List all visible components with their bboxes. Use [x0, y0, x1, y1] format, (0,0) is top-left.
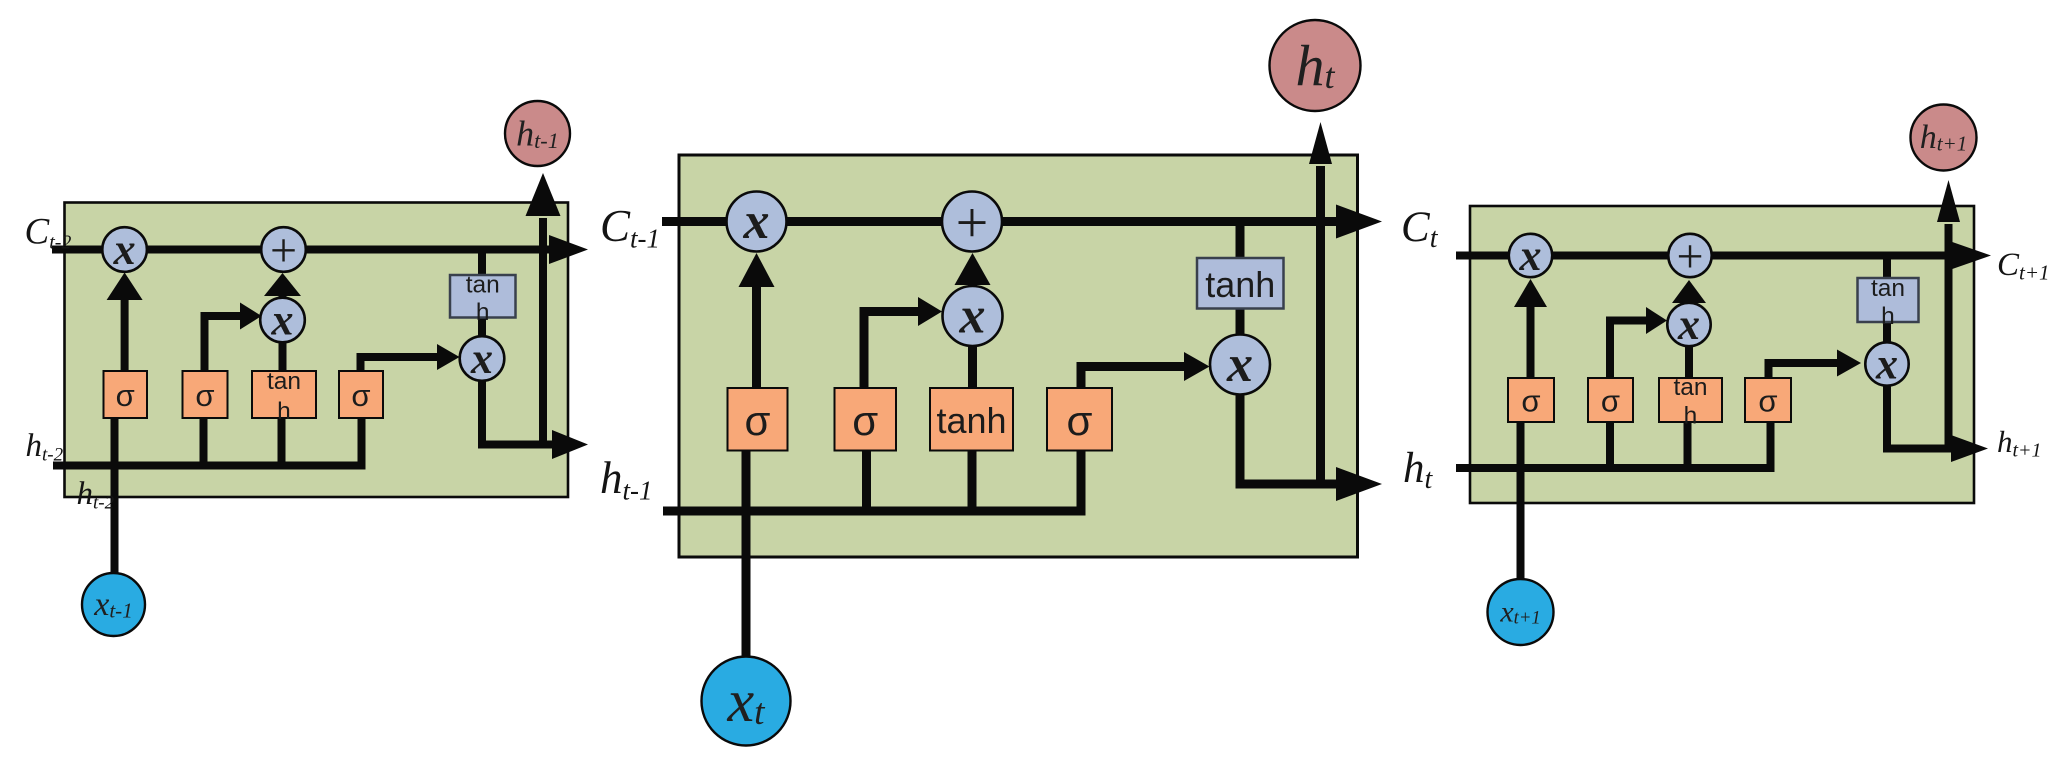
svg-text:h: h: [277, 398, 291, 425]
op multiply (input) cell R: [1667, 300, 1710, 349]
wire h-output line cell R: [1887, 384, 1953, 449]
svg-text:σ: σ: [195, 378, 214, 413]
op multiply (output) cell R: [1865, 340, 1908, 389]
input circle x cell L: [82, 573, 145, 636]
LSTM cell L background: [65, 203, 569, 498]
arrowhead into plus cell M: [955, 253, 991, 285]
svg-text:σ: σ: [116, 378, 135, 413]
wire C-line cell L: [52, 246, 551, 254]
op multiply (output) cell L: [460, 334, 505, 383]
wire x-input drop cell R: [1517, 421, 1525, 581]
arrowhead h-up cell M: [1309, 122, 1332, 164]
op multiply (input) cell M: [943, 286, 1003, 346]
gate sigma2 cell M: [835, 388, 897, 451]
svg-text:σ: σ: [852, 397, 878, 444]
output circle h cell M: [1270, 20, 1361, 111]
arrowhead into plus cell L: [264, 273, 301, 296]
svg-text:σ: σ: [1521, 384, 1540, 419]
svg-text:x: x: [470, 334, 493, 383]
svg-text:+: +: [956, 190, 989, 255]
arrowhead into mult1 cell R: [1514, 279, 1547, 307]
svg-text:σ: σ: [1758, 384, 1777, 419]
LSTM cell M background: [679, 155, 1358, 557]
tanh output box cell M: [1197, 258, 1284, 309]
op multiply (forget) cell L: [102, 225, 147, 274]
arrowhead into mult2 cell L: [240, 303, 262, 330]
svg-text:x: x: [1519, 231, 1542, 280]
tanh output box cell R: [1858, 275, 1919, 330]
gate sigma2 cell R: [1588, 378, 1633, 422]
wire h-output line cell M: [1240, 393, 1338, 485]
wire drop tanh-gate-to-h cell M: [968, 450, 977, 512]
arrowhead into mult2 cell M: [918, 297, 942, 326]
wire drop sigma2-to-h cell M: [862, 450, 871, 512]
wire tanh-blue-to-mult3 riser cell L: [478, 316, 486, 339]
op multiply (forget) cell R: [1509, 231, 1552, 280]
output circle h cell R: [1911, 105, 1977, 171]
arrowhead into mult2 cell R: [1646, 307, 1667, 334]
op multiply (forget) cell M: [727, 192, 787, 252]
input circle x cell R: [1488, 579, 1554, 645]
svg-text:Ct+1: Ct+1: [1997, 247, 2050, 285]
gate sigma1 cell L: [104, 371, 148, 418]
wire sigma1-to-mult riser cell R: [1527, 305, 1535, 379]
gate tanh cell R: [1659, 374, 1722, 429]
wire tanh-gate-to-mult2 riser cell R: [1685, 344, 1693, 379]
op add cell M: [942, 190, 1002, 255]
svg-text:ht: ht: [1403, 445, 1434, 495]
op add cell L: [261, 224, 306, 277]
svg-text:tan: tan: [1871, 275, 1905, 302]
gate sigma1 cell M: [728, 388, 788, 451]
svg-text:ht+1: ht+1: [1997, 424, 2042, 461]
arrowhead C-out cell L: [549, 235, 588, 264]
svg-text:ht-1: ht-1: [600, 453, 653, 505]
svg-text:Ct-1: Ct-1: [600, 201, 660, 253]
svg-text:x: x: [113, 225, 136, 274]
gate sigma3 cell L: [339, 371, 383, 418]
svg-text:σ: σ: [1067, 397, 1093, 444]
svg-text:x: x: [271, 296, 294, 345]
svg-text:σ: σ: [1601, 384, 1620, 419]
wire h-input line cell R: [1456, 421, 1771, 468]
svg-text:h: h: [1684, 402, 1698, 429]
svg-text:x: x: [1875, 340, 1898, 389]
wire mult2-to-plus riser cell R: [1685, 301, 1693, 305]
wire sigma1-to-mult riser cell M: [752, 285, 761, 389]
wire h-input line cell L: [53, 417, 362, 466]
wire tanh-blue-to-mult3 riser cell M: [1236, 307, 1245, 337]
arrowhead into mult3 cell M: [1184, 352, 1210, 381]
svg-text:x: x: [959, 288, 986, 345]
op add cell R: [1668, 230, 1711, 283]
svg-text:h: h: [1881, 303, 1895, 330]
tanh output box cell L: [450, 272, 516, 326]
wire x-input drop cell L: [111, 417, 119, 575]
wire h-output line cell L: [482, 379, 554, 445]
wire sigma3-to-mult3 bend cell L: [361, 357, 440, 372]
arrowhead h-up cell R: [1937, 180, 1960, 222]
wire sigma2-to-mult2 bend cell L: [205, 316, 243, 372]
wire mult2-to-plus riser cell M: [968, 283, 977, 288]
wire h-up line cell L: [539, 218, 547, 449]
gate sigma3 cell M: [1047, 388, 1112, 451]
svg-text:x: x: [1677, 300, 1700, 349]
svg-text:+: +: [270, 224, 297, 277]
wire sigma3-to-mult3 bend cell M: [1081, 367, 1186, 390]
wire tanh-gate-to-mult2 riser cell M: [968, 344, 977, 389]
wire C-line cell M: [662, 217, 1338, 226]
wire sigma3-to-mult3 bend cell R: [1769, 363, 1840, 379]
arrowhead h-up cell L: [526, 173, 561, 216]
arrowhead h-out cell M: [1336, 467, 1382, 501]
LSTM cell R background: [1470, 206, 1974, 503]
wire tanh-gate-to-mult2 riser cell L: [279, 340, 287, 372]
wire sigma2-to-mult2 bend cell R: [1610, 321, 1648, 380]
wire C-to-tanh-blue riser cell R: [1883, 256, 1891, 281]
wire C-to-tanh-blue riser cell M: [1236, 222, 1245, 261]
svg-text:tanh: tanh: [1205, 264, 1275, 305]
wire h-input line cell M: [663, 450, 1081, 512]
svg-text:ht-2: ht-2: [26, 428, 64, 466]
svg-text:tan: tan: [466, 272, 500, 299]
svg-text:tanh: tanh: [936, 400, 1006, 441]
output circle h cell L: [505, 101, 570, 166]
arrowhead into mult3 cell R: [1837, 350, 1861, 377]
wire mult2-to-plus riser cell L: [279, 294, 287, 300]
svg-text:tan: tan: [267, 368, 301, 395]
wire sigma2-to-mult2 bend cell M: [864, 312, 920, 390]
input circle x cell M: [702, 657, 791, 746]
svg-text:x: x: [1226, 336, 1253, 393]
svg-text:h: h: [476, 299, 490, 326]
svg-text:x: x: [743, 193, 770, 250]
wire drop tanh-gate-to-h cell L: [278, 417, 286, 466]
wire h-up line cell R: [1945, 224, 1953, 453]
arrowhead into plus cell R: [1672, 280, 1706, 303]
svg-text:σ: σ: [745, 397, 771, 444]
arrowhead C-out cell M: [1336, 205, 1382, 239]
svg-text:Ct: Ct: [1401, 204, 1439, 254]
svg-text:σ: σ: [351, 378, 370, 413]
wire drop tanh-gate-to-h cell R: [1684, 421, 1692, 468]
wire C-to-tanh-blue riser cell L: [478, 250, 486, 278]
gate tanh cell L: [252, 368, 316, 425]
svg-text:+: +: [1676, 230, 1703, 283]
wire h-up line cell M: [1316, 166, 1325, 489]
gate sigma3 cell R: [1745, 378, 1791, 422]
arrowhead into mult3 cell L: [437, 344, 460, 370]
arrowhead C-out cell R: [1948, 241, 1991, 271]
wire C-line cell R: [1456, 252, 1950, 260]
gate sigma2 cell L: [183, 371, 228, 418]
svg-text:tan: tan: [1673, 374, 1707, 401]
gate tanh cell M: [930, 388, 1013, 451]
arrowhead into mult1 cell L: [107, 273, 143, 301]
wire drop sigma2-to-h cell R: [1606, 421, 1614, 468]
arrowhead h-out cell R: [1951, 435, 1988, 462]
wire x-input drop cell M: [742, 450, 751, 659]
gate sigma1 cell R: [1508, 378, 1554, 422]
arrowhead into mult1 cell M: [739, 253, 775, 287]
wire drop sigma2-to-h cell L: [200, 417, 208, 466]
arrowhead h-out cell L: [552, 430, 588, 459]
op multiply (input) cell L: [260, 296, 305, 345]
wire tanh-blue-to-mult3 riser cell R: [1883, 320, 1891, 344]
op multiply (output) cell M: [1210, 335, 1270, 395]
wire sigma1-to-mult riser cell L: [121, 298, 129, 372]
